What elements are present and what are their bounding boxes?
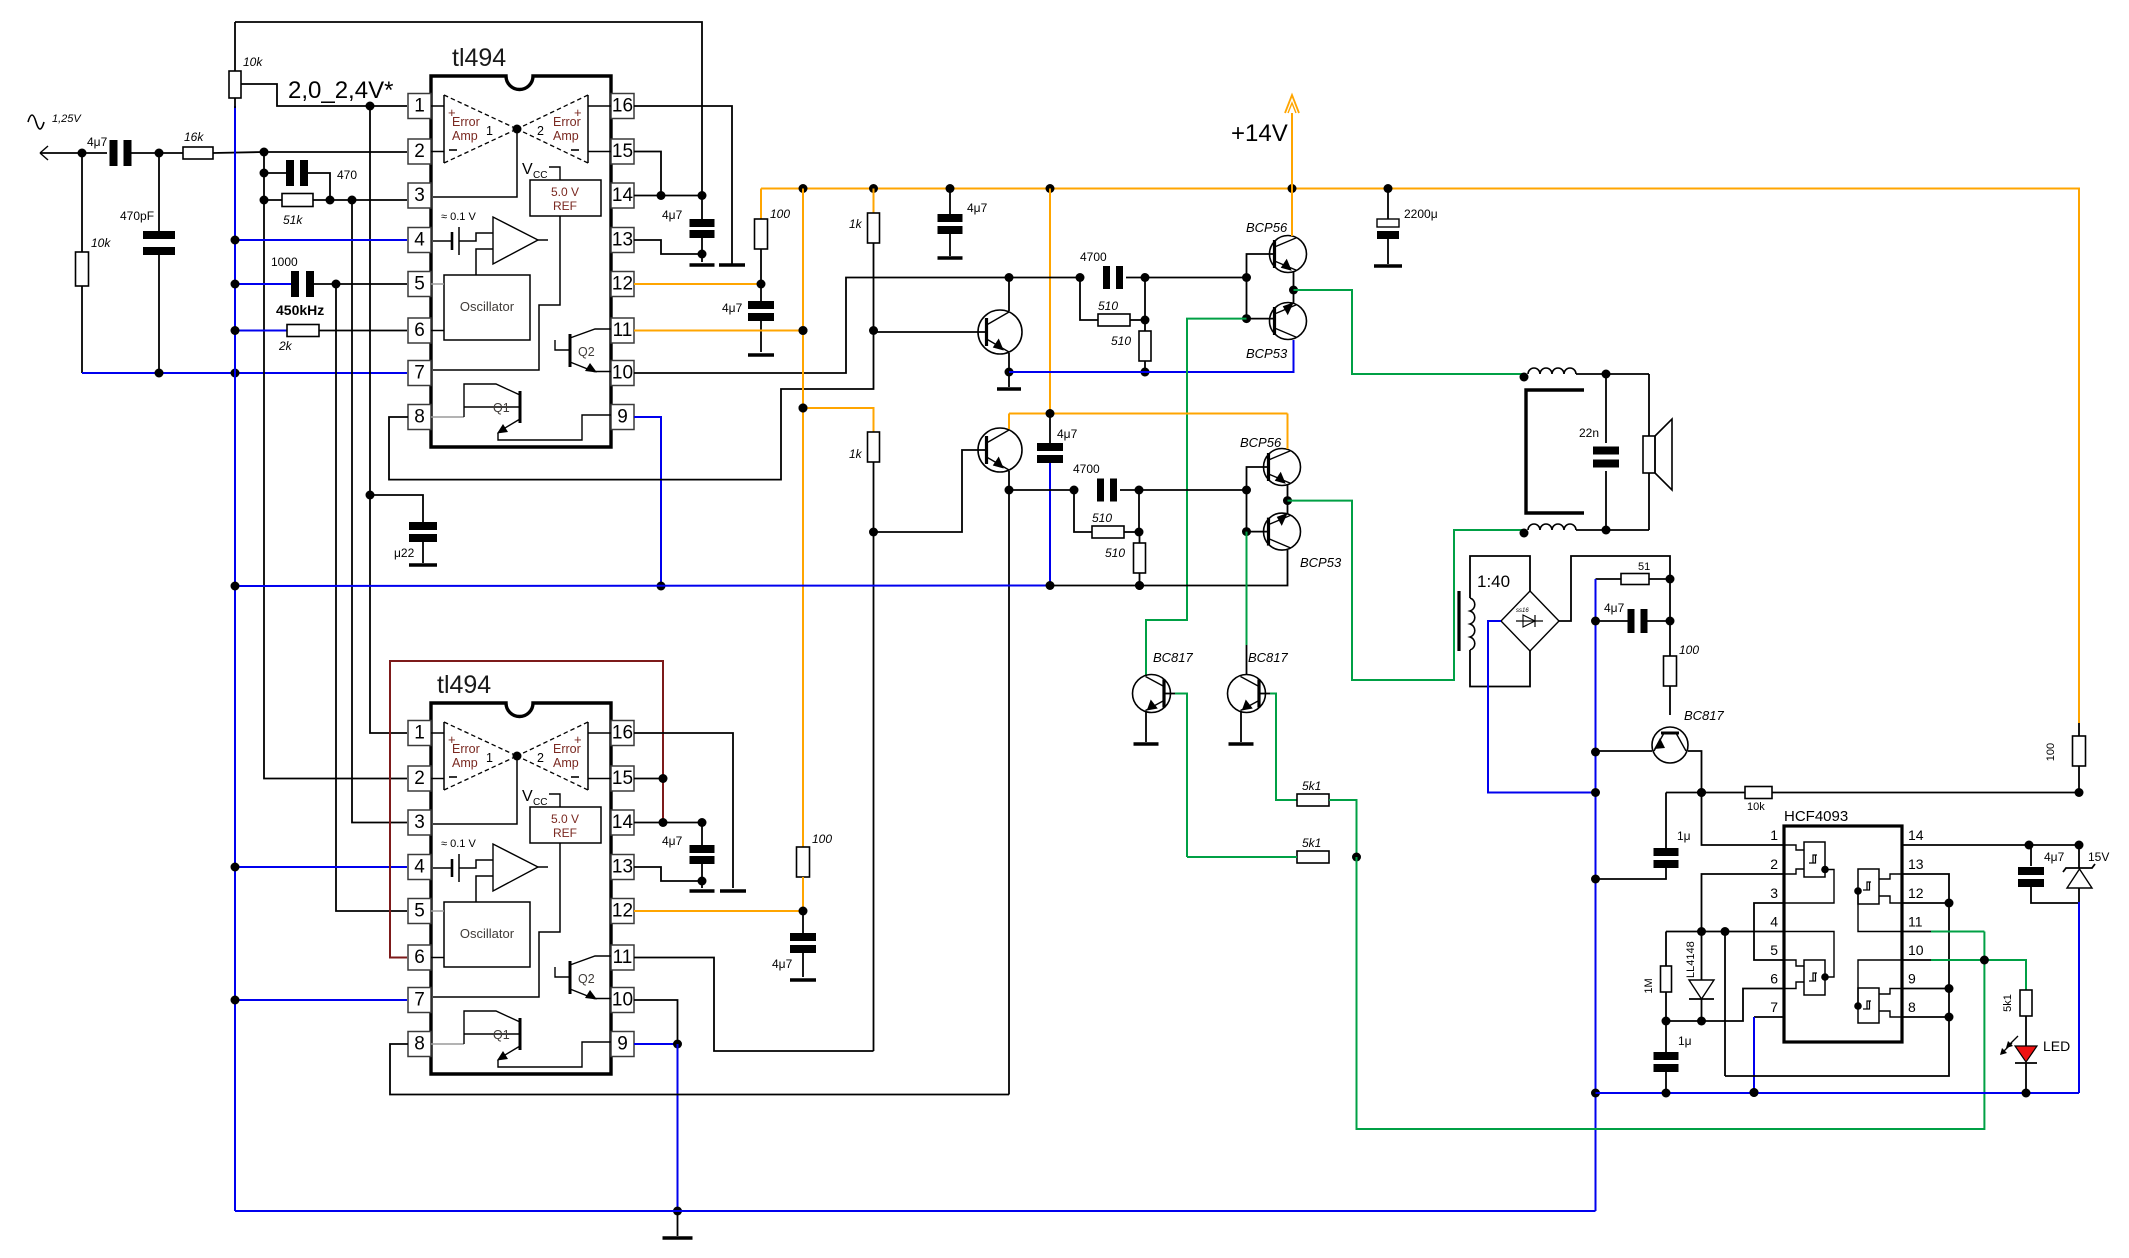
svg-text:1M: 1M — [1643, 978, 1655, 993]
transformer T2 1:40 label — [1477, 572, 1510, 591]
U3 pin 1 number — [1770, 827, 1778, 843]
wire blue bottom row right — [1596, 1088, 2080, 1098]
svg-text:4μ7: 4μ7 — [662, 208, 683, 222]
capacitor C5 4u7 ref — [662, 196, 715, 263]
U1 internal feedback wire to pin 3 — [433, 125, 522, 198]
label 450kHz — [276, 302, 324, 318]
capacitor C11 4700 lower — [1073, 462, 1117, 502]
svg-text:100: 100 — [1679, 643, 1699, 657]
svg-text:BC817: BC817 — [1248, 650, 1289, 665]
op-amp U1 (tl494 IC) label — [452, 44, 506, 72]
ground under C7 — [938, 256, 963, 260]
U1 pin 1 — [408, 94, 431, 119]
svg-text:8: 8 — [414, 1034, 425, 1055]
capacitor C4 1000 — [231, 255, 408, 297]
input arrow — [40, 146, 48, 160]
U2 internal transistor Q1 — [431, 1011, 611, 1067]
ground for pin16 net — [719, 263, 745, 267]
svg-text:ss16: ss16 — [1516, 608, 1529, 614]
wire orange rail2a — [803, 408, 874, 432]
wire Q10 emitter — [1145, 712, 1147, 742]
svg-text:16k: 16k — [184, 130, 204, 144]
svg-text:13: 13 — [612, 857, 633, 878]
transistor Q11 BC817 right — [1228, 650, 1289, 713]
wire pin8 IC2 loop — [390, 1044, 1009, 1095]
svg-text:51k: 51k — [283, 213, 303, 227]
wire R17 left green — [1187, 856, 1297, 858]
wire green output2 — [1288, 501, 1525, 680]
resistor R10 510 vertical — [1111, 320, 1151, 377]
svg-text:12: 12 — [1908, 885, 1924, 901]
capacitor C3 470 — [260, 160, 358, 200]
resistor R3 10k trimmer top — [229, 55, 263, 108]
transistor Q3 driver1 — [978, 310, 1022, 354]
wire U3 pin4 row — [1666, 927, 1784, 936]
svg-text:Error: Error — [553, 115, 581, 129]
svg-text:Amp: Amp — [452, 756, 478, 770]
wire pin9 IC2 blue — [634, 1040, 682, 1049]
wire blue right down — [2078, 902, 2080, 1093]
blue bus vertical — [234, 106, 236, 1211]
U3 pin 11 number — [1908, 914, 1923, 930]
U1 Vcc label — [522, 161, 560, 181]
svg-text:15: 15 — [612, 768, 633, 789]
resistor R5 2k — [231, 325, 408, 354]
wire pin4 IC2 row blue — [231, 863, 408, 872]
svg-text:Oscillator: Oscillator — [460, 926, 515, 941]
capacitor C7 4u7 rail — [938, 189, 988, 257]
U3 pin 12 number — [1908, 885, 1924, 901]
svg-text:≈ 0.1 V: ≈ 0.1 V — [441, 211, 476, 223]
svg-text:51: 51 — [1638, 561, 1650, 573]
svg-text:Q2: Q2 — [578, 972, 595, 986]
U3 gate C — [1784, 932, 1834, 996]
svg-text:2: 2 — [537, 124, 544, 138]
svg-text:510: 510 — [1092, 511, 1112, 525]
transistor Q9 BC817 sense — [1652, 708, 1725, 763]
inductor L1 top — [1520, 368, 1577, 382]
svg-text:Amp: Amp — [452, 129, 478, 143]
inductor L2 bottom — [1520, 524, 1577, 538]
svg-text:BCP56: BCP56 — [1240, 435, 1282, 450]
svg-text:14: 14 — [1908, 827, 1924, 843]
ground under Q3 — [997, 387, 1021, 391]
ground for pin16 IC2 — [720, 889, 746, 893]
U2 pin 16 — [611, 721, 634, 746]
svg-text:4: 4 — [414, 230, 425, 251]
svg-text:1,25V: 1,25V — [52, 113, 82, 125]
svg-text:Error: Error — [452, 115, 480, 129]
svg-text:4700: 4700 — [1073, 462, 1100, 476]
svg-text:5k1: 5k1 — [1302, 779, 1321, 793]
ground under C14 — [690, 889, 715, 893]
wire base link pair1 — [1242, 254, 1275, 323]
wire Q9 right down to 10k row — [1688, 751, 1706, 797]
U3 pin 8 number — [1908, 999, 1916, 1015]
svg-text:V: V — [522, 161, 533, 178]
svg-text:4: 4 — [414, 857, 425, 878]
U1 pin 2 — [408, 139, 431, 164]
wire orange branch x803 — [799, 189, 808, 848]
svg-text:10k: 10k — [243, 55, 263, 69]
resistor R16 5k1 upper — [1297, 779, 1329, 806]
U3 gate D — [1854, 960, 1902, 1023]
svg-text:2: 2 — [414, 768, 425, 789]
capacitor C10 4u7 rail2 — [1037, 414, 1078, 464]
wire C1 to R2 — [131, 152, 183, 154]
wire pin11 IC2 to driver base node — [634, 958, 874, 1052]
wire blue sense vertical — [1591, 579, 1600, 1211]
U2 pin 6 — [408, 945, 431, 970]
svg-text:1: 1 — [486, 751, 493, 765]
ground under C5 — [690, 263, 715, 267]
wire Q4 collector orange stub — [1008, 414, 1010, 430]
resistor R20 1M — [1643, 932, 1672, 1026]
resistor R7 100 lower — [797, 832, 833, 911]
wire Q5 emitter to Q6 collector — [1289, 272, 1298, 303]
svg-text:6: 6 — [414, 320, 425, 341]
resistor R9 510 — [1080, 278, 1150, 327]
svg-text:Amp: Amp — [553, 129, 579, 143]
svg-text:11: 11 — [1908, 914, 1923, 930]
svg-text:tl494: tl494 — [452, 44, 506, 72]
label 1,25V — [52, 113, 82, 125]
svg-text:Error: Error — [553, 742, 581, 756]
svg-text:9: 9 — [617, 1034, 628, 1055]
U3 pin 2 number — [1770, 856, 1778, 872]
U1 pin 5 — [408, 272, 431, 297]
svg-text:LL4148: LL4148 — [1685, 941, 1697, 978]
wire pin15 to pin14 junction — [634, 152, 661, 196]
wire Q7 emitter to Q8 collector — [1283, 485, 1292, 514]
svg-text:16: 16 — [612, 723, 633, 744]
U1 pin 15 — [611, 139, 634, 164]
wire U3 pin7 blue — [1750, 1017, 1785, 1097]
svg-text:8: 8 — [1908, 999, 1916, 1015]
wire Q11 emitter — [1240, 712, 1242, 742]
AC source symbol — [28, 115, 44, 129]
wire vertical bus x264 pin2 to IC2 pin2 — [264, 152, 407, 779]
U1 pin 11 — [611, 318, 634, 343]
svg-text:450kHz: 450kHz — [276, 302, 324, 318]
svg-text:510: 510 — [1111, 334, 1131, 348]
U3 pin 13 number — [1908, 856, 1924, 872]
transformer T1 secondary bracket — [1526, 390, 1584, 513]
U1 0.1V offset battery — [433, 211, 493, 255]
svg-text:4μ7: 4μ7 — [87, 135, 108, 149]
U1 5.0V REF box — [530, 180, 601, 216]
+14V supply arrow — [1285, 95, 1299, 189]
diode D2 LL4148 — [1685, 932, 1714, 1026]
wire bridge left blue — [1488, 621, 1596, 793]
capacitor C14 4u7 ref IC2 — [662, 823, 715, 889]
svg-text:4μ7: 4μ7 — [1604, 601, 1625, 615]
svg-text:1k: 1k — [849, 217, 863, 231]
svg-text:4μ7: 4μ7 — [772, 957, 793, 971]
wire pin13 to C5 bottom — [634, 240, 702, 254]
U2 pin 12 — [611, 899, 634, 924]
U2 IC body — [431, 703, 611, 1074]
svg-text:14: 14 — [612, 812, 634, 833]
svg-text:4μ7: 4μ7 — [662, 834, 683, 848]
svg-text:1000: 1000 — [271, 255, 298, 269]
wire U3 pin3 to pin5 loop — [1754, 903, 1784, 960]
resistor R11 1k lower — [849, 432, 880, 1051]
U1 pin 8 — [408, 405, 431, 430]
wire pin14 row — [634, 191, 707, 200]
svg-text:10: 10 — [612, 363, 633, 384]
U1 pin 13 — [611, 228, 634, 253]
wire row to U3 pin6 — [1666, 989, 1784, 1022]
wire 4700 row2 — [1009, 486, 1247, 495]
svg-text:13: 13 — [612, 230, 633, 251]
U2 5.0V REF box — [530, 807, 601, 843]
transformer T2 winding and frame — [1470, 556, 1530, 687]
wire Q5 collector orange — [1291, 189, 1293, 237]
transistor Q8 BCP53 lower2 — [1264, 513, 1342, 570]
transistor Q7 BCP56 upper2 — [1240, 435, 1301, 486]
svg-text:2,0_2,4V*: 2,0_2,4V* — [288, 77, 393, 104]
wire U3 pins 13-12-9-8 tie — [1725, 874, 1954, 1076]
wire pin10 IC2 — [634, 1000, 678, 1044]
svg-text:11: 11 — [613, 947, 633, 968]
wire bridge right loop to 51 network — [1559, 556, 1670, 621]
wire base link pair2 — [1242, 467, 1269, 536]
svg-text:12: 12 — [612, 901, 633, 922]
svg-text:4: 4 — [1770, 914, 1778, 930]
svg-text:Error: Error — [452, 742, 480, 756]
svg-text:BCP53: BCP53 — [1300, 555, 1342, 570]
wire green loop to HCF — [1357, 857, 1985, 1129]
wire pin12 orange stub — [634, 280, 766, 289]
wire U3 pin10 green to 5k1 — [1902, 956, 2026, 991]
label 2,0_2,4V* — [288, 77, 393, 104]
wire 10k row — [1666, 788, 1745, 797]
U2 pin 1 — [408, 721, 431, 746]
capacitor C19 4u7 right — [2018, 845, 2079, 903]
wire pin13 IC2 to C14 bottom — [634, 867, 702, 881]
svg-text:10: 10 — [1908, 942, 1924, 958]
wire emitter rail black2 — [1050, 550, 1288, 590]
svg-text:2k: 2k — [278, 339, 293, 353]
svg-text:10: 10 — [612, 990, 633, 1011]
U2 error amp 2 — [517, 722, 588, 790]
capacitor C13 4u7 sense — [1596, 579, 1675, 633]
wire pin4 row blue — [231, 236, 408, 245]
U1 pin 4 — [408, 228, 431, 253]
wire green output1 — [1294, 290, 1525, 374]
U2 pin 15 — [611, 766, 634, 791]
svg-text:HCF4093: HCF4093 — [1784, 808, 1848, 825]
svg-text:1: 1 — [414, 723, 425, 744]
zener diode D3 15V — [2063, 845, 2109, 903]
svg-text:2: 2 — [1770, 856, 1778, 872]
svg-text:3: 3 — [414, 812, 425, 833]
svg-text:BCP56: BCP56 — [1246, 220, 1288, 235]
svg-text:15: 15 — [612, 141, 633, 162]
svg-text:Q1: Q1 — [493, 1028, 510, 1042]
svg-text:Q2: Q2 — [578, 345, 595, 359]
wire pin15 IC2 stub — [634, 778, 663, 780]
U3 pin 5 number — [1770, 942, 1778, 958]
U2 pin 9 — [611, 1032, 634, 1057]
svg-text:4700: 4700 — [1080, 250, 1107, 264]
resistor R12 510 lower — [1074, 490, 1144, 538]
ground under C8 — [1374, 264, 1402, 268]
wire input line — [40, 149, 164, 158]
bridge rectifier D1 ss16 — [1501, 591, 1559, 651]
resistor R21 5k1 LED — [2002, 990, 2032, 1016]
U1 pin 6 — [408, 318, 431, 343]
svg-text:V: V — [522, 788, 533, 805]
U1 REF output wire — [433, 216, 560, 370]
capacitor C15 4u7 under pin12 IC2 — [772, 911, 816, 977]
U2 amp input wires — [431, 733, 611, 779]
svg-text:tl494: tl494 — [437, 671, 491, 699]
resistor R13 510 vertical lower — [1105, 532, 1146, 590]
U2 pin 4 — [408, 855, 431, 880]
wire green pair1 base to BC817 net — [1146, 319, 1247, 676]
wire orange rail2b — [799, 404, 1288, 419]
U3 pin 3 number — [1770, 885, 1778, 901]
svg-text:BC817: BC817 — [1684, 708, 1725, 723]
capacitor C16 u22 — [366, 491, 438, 564]
wire U3 pin2 connect — [1702, 874, 1785, 932]
svg-text:13: 13 — [1908, 856, 1924, 872]
U3 pin 10 number — [1908, 942, 1924, 958]
svg-text:5.0 V: 5.0 V — [551, 185, 579, 199]
U2 error amp 1 — [444, 722, 517, 790]
U3 pin 6 number — [1770, 971, 1778, 987]
wire pin8 loop to driver base node — [389, 331, 874, 480]
wire 10k to right rail — [1772, 788, 2084, 797]
U1 oscillator box — [431, 275, 530, 340]
logic IC U3 HCF4093 label — [1784, 808, 1848, 825]
U3 HCF4093 body — [1784, 826, 1902, 1042]
svg-text:470pF: 470pF — [120, 209, 154, 223]
svg-text:1μ: 1μ — [1678, 1034, 1692, 1048]
svg-text:9: 9 — [617, 407, 628, 428]
U1 pin 16 — [611, 94, 634, 119]
U3 pin 4 number — [1770, 914, 1778, 930]
svg-text:1k: 1k — [849, 447, 863, 461]
svg-text:100: 100 — [770, 207, 790, 221]
U1 amp input wires — [431, 106, 611, 152]
resistor R6 100 — [755, 189, 791, 285]
U3 pin 9 number — [1908, 971, 1916, 987]
U1 internal transistor Q2 — [555, 329, 611, 373]
resistor R18 10k — [1745, 787, 1772, 814]
wire pin10 to driver collector rail — [634, 278, 1009, 374]
wire pin9 blue — [634, 417, 666, 591]
wire pin7 IC2 row blue — [231, 996, 408, 1005]
svg-text:14: 14 — [612, 185, 634, 206]
U2 internal feedback wire to pin 3 — [433, 752, 522, 825]
svg-text:LED: LED — [2043, 1038, 2070, 1054]
wire U3 pin14 row — [1902, 841, 2084, 850]
svg-text:1: 1 — [486, 124, 493, 138]
svg-text:100: 100 — [2045, 743, 2057, 761]
LED D4 — [2000, 1016, 2070, 1093]
wire Q3 collector — [1005, 273, 1014, 311]
U2 pin 2 — [408, 766, 431, 791]
svg-text:16: 16 — [612, 96, 633, 117]
wire bottom blue return — [235, 1210, 1596, 1212]
svg-text:+14V: +14V — [1231, 120, 1288, 147]
wire R16 right green — [1329, 800, 1361, 862]
U2 pin 14 — [611, 810, 634, 835]
transformer T2 core — [1457, 591, 1460, 651]
wire Q10 base green — [1164, 694, 1187, 858]
ground under Q10 — [1134, 742, 1159, 746]
svg-text:2: 2 — [537, 751, 544, 765]
svg-text:7: 7 — [414, 990, 425, 1011]
wire Q10 collector — [1145, 675, 1147, 676]
svg-text:5: 5 — [414, 274, 425, 295]
capacitor C9 4700 — [1080, 250, 1123, 289]
U2 REF output wire — [433, 843, 560, 997]
wire maroon feedback loop — [390, 661, 668, 958]
svg-text:4μ7: 4μ7 — [967, 201, 988, 215]
wire C10 bottom blue — [1049, 463, 1051, 586]
wire pin7 row blue — [82, 369, 407, 378]
resistor R19 100 right — [2045, 723, 2086, 793]
U1 pin 10 — [611, 361, 634, 386]
svg-text:22n: 22n — [1579, 426, 1599, 440]
capacitor C18 1u lower — [1654, 1021, 1692, 1093]
U3 pin 14 number — [1908, 827, 1924, 843]
svg-text:5.0 V: 5.0 V — [551, 812, 579, 826]
wire Q11 base green — [1259, 694, 1297, 801]
svg-text:Oscillator: Oscillator — [460, 299, 515, 314]
svg-text:4μ7: 4μ7 — [1057, 427, 1078, 441]
U2 comparator — [476, 844, 548, 902]
transistor Q4 driver2 — [978, 428, 1022, 472]
svg-text:BC817: BC817 — [1153, 650, 1194, 665]
svg-text:1:40: 1:40 — [1477, 572, 1510, 591]
wire Q7 collector orange — [1287, 414, 1289, 450]
ground bottom — [663, 1211, 693, 1238]
U3 gate B — [1854, 869, 1902, 932]
svg-text:μ22: μ22 — [394, 546, 415, 560]
U1 comparator — [476, 217, 548, 275]
wire Q9 left to blue — [1596, 750, 1653, 752]
resistor R2 16k — [183, 130, 213, 159]
wire pin16 IC2 to ground — [634, 733, 733, 888]
resistor R14 51 — [1596, 561, 1675, 585]
resistor R17 5k1 lower — [1297, 836, 1329, 863]
resistor R4 51k — [260, 194, 408, 228]
resistor R8 1k — [849, 189, 880, 336]
wire pin14 IC2 row — [634, 818, 707, 827]
U2 0.1V offset battery — [433, 838, 493, 882]
wire pin12 IC2 orange — [634, 907, 808, 916]
ground under C6 — [748, 353, 774, 357]
wire Q3 base from R8 — [874, 331, 987, 333]
U1 pin 3 — [408, 183, 431, 208]
svg-text:5k1: 5k1 — [1302, 836, 1321, 850]
capacitor C8 2200u — [1377, 189, 1438, 265]
U1 pin 12 — [611, 272, 634, 297]
svg-text:1μ: 1μ — [1677, 829, 1691, 843]
wire trimmer tap to pin 1 — [241, 84, 407, 111]
wire L1 to speaker node — [1576, 370, 1649, 379]
U1 error amp 2 — [517, 95, 588, 163]
svg-text:1: 1 — [1770, 827, 1778, 843]
capacitor C17 1u upper — [1596, 793, 1691, 880]
U2 pin 8 — [408, 1032, 431, 1057]
wire top rail from 10k — [235, 22, 702, 196]
